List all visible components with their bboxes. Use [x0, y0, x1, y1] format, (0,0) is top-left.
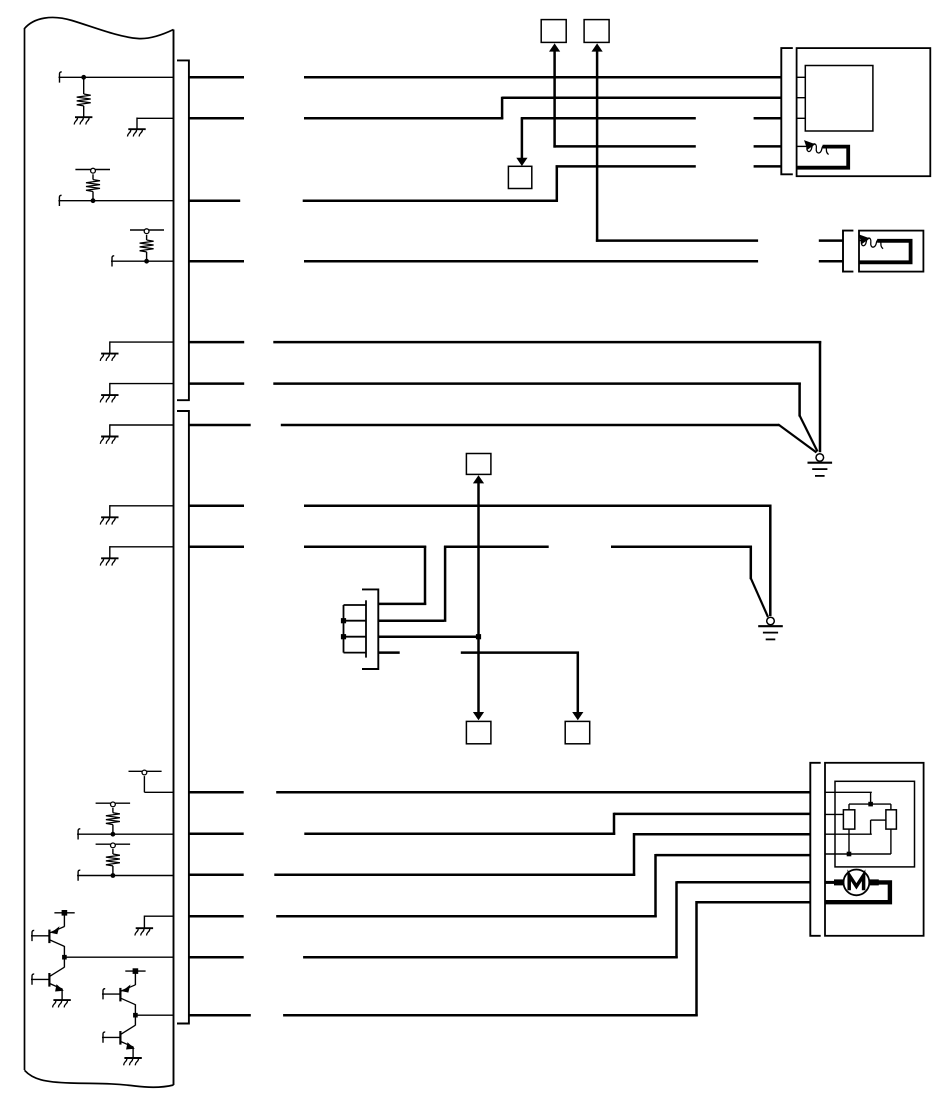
wire row 118 seg1: [189, 117, 244, 120]
off-page connector E5: [565, 721, 590, 743]
sensor wire pin 792: [825, 791, 872, 793]
wire row 201 riser: [556, 165, 559, 201]
wire row 957 riser: [675, 881, 678, 958]
transistor Q3: [120, 985, 135, 1005]
wire row 261 seg2: [304, 260, 758, 263]
wire drop to connector E1: [521, 117, 524, 158]
wire row 916 seg3: [656, 854, 811, 857]
wire row 506 seg2: [304, 505, 772, 508]
wire ECU pin 383: [110, 383, 174, 385]
pin curl row 834: [78, 829, 80, 840]
sensor wire riser: [870, 820, 872, 834]
wire row 383 seg2: [273, 382, 801, 385]
ground row 342: [100, 354, 118, 361]
wire valve pin B: [378, 619, 444, 622]
wire row 506 drop to ground: [769, 505, 772, 616]
ground Q2 emitter: [53, 1000, 71, 1007]
wire row 875 seg1: [189, 874, 244, 877]
ECU box torn wavy bottom edge: [25, 1070, 174, 1087]
wire row 1015 riser: [695, 901, 698, 1016]
wire junction to Q2 collector: [63, 957, 65, 967]
resistor R4: [106, 813, 120, 825]
wire row 957 seg2: [303, 956, 678, 959]
stub pin 98 big component: [797, 97, 806, 99]
arrowhead into E3: [592, 43, 603, 51]
off-page connector E2: [541, 20, 566, 43]
wire row 261 seg1: [189, 260, 244, 263]
wire row 240: [596, 239, 758, 242]
collector rail Q1: [54, 912, 74, 914]
motor M1: [844, 870, 870, 896]
sensor top bar: [849, 803, 891, 805]
wire Q4 base: [102, 1036, 120, 1038]
wire row 547 seg1: [189, 546, 244, 549]
stub pin small component: [859, 240, 862, 242]
wire R6 bottom: [848, 829, 850, 854]
wire valve pin C: [378, 635, 479, 638]
heater element big component: [804, 140, 829, 154]
position sensor inner box: [835, 781, 915, 867]
motor left terminal: [825, 881, 836, 884]
pin curl row 875: [78, 870, 80, 881]
big component box: [797, 48, 931, 176]
sensor wire to R7 side: [871, 819, 886, 821]
wire row 118 riser: [501, 97, 504, 120]
sensor wire pin 814: [825, 813, 843, 815]
pin curl Q4 base: [103, 1032, 105, 1043]
wire row 916 seg1: [189, 915, 244, 918]
supply bar R2: [75, 169, 110, 171]
terminal square Q1 rail: [62, 910, 68, 916]
connector bracket small component: [843, 231, 853, 272]
wire row 916 seg2: [276, 915, 657, 918]
wire Q3 base: [102, 993, 120, 995]
sensor wire pin 854: [825, 853, 891, 855]
resistor R3: [140, 240, 154, 252]
off-page connector E4: [466, 721, 491, 743]
junction row 875: [111, 873, 116, 878]
wire row 166: [556, 165, 696, 168]
wire ECU pin 957: [64, 956, 173, 958]
wire row 547 seg2: [304, 546, 426, 549]
wire ECU pin 261: [111, 260, 174, 262]
junction row 201: [91, 198, 96, 203]
ground row 506: [100, 517, 118, 524]
wire E2 drop to row 146: [553, 50, 556, 147]
wire row 1015 seg2: [283, 1014, 698, 1017]
wire row 118 seg2: [304, 117, 503, 120]
wire ECU pin 342: [110, 341, 174, 343]
wire row 201 seg1: [189, 199, 240, 202]
junction valve pin C: [476, 634, 481, 639]
ground drop row 547: [109, 546, 111, 558]
wire row 834 seg3: [614, 813, 810, 816]
motor right terminal: [869, 879, 879, 885]
sensor wire pin 834: [825, 833, 872, 835]
transistor Q2: [49, 967, 64, 991]
bolt ground G1: [808, 454, 833, 476]
pin curl row 201: [59, 195, 61, 206]
ground drop row 342: [109, 341, 111, 353]
valve body right edge: [365, 600, 367, 657]
transistor Q4: [120, 1025, 135, 1049]
wire row 875 riser: [633, 833, 636, 876]
supply bar R5: [96, 843, 131, 845]
junction row 261: [144, 259, 149, 264]
wire R1 to ground: [83, 106, 85, 117]
off-page connector E1: [508, 166, 531, 188]
pin curl Q1 base: [32, 930, 34, 941]
wire row 383 seg1: [189, 382, 244, 385]
wire bar to R3: [146, 235, 148, 240]
arrowhead into E5: [572, 712, 583, 720]
wire row 1015 seg3: [697, 901, 811, 904]
off-page connector E6: [466, 454, 491, 475]
collector rail Q3: [125, 970, 145, 972]
wire valve pin B riser: [444, 546, 447, 622]
wire junction C up to E6: [477, 482, 480, 636]
motor loop wire: [825, 882, 890, 902]
ECU box left edge: [24, 28, 26, 1070]
wire bar to R4: [112, 808, 114, 813]
wire row 957 seg1: [189, 956, 244, 959]
wire R2 to pin row: [92, 192, 94, 201]
ground drop row 118: [136, 118, 138, 130]
wire ECU pin 425: [110, 424, 174, 426]
wire Q1 base: [31, 935, 49, 937]
resistor R5: [106, 854, 120, 866]
wire row 240 seg2: [819, 239, 843, 242]
pin curl Q2 base: [32, 974, 34, 985]
ground row 547: [100, 558, 118, 565]
pin curl Q3 base: [103, 989, 105, 1000]
throttle body box: [825, 763, 924, 936]
wire row 383 drop: [798, 383, 801, 417]
ground drop row 425: [109, 424, 111, 436]
wire E3 drop to row 240: [596, 50, 599, 241]
wire row 875 seg3: [634, 833, 810, 836]
wire ECU pin 834: [77, 833, 173, 835]
wire ECU pin 1015: [135, 1014, 173, 1016]
ground row 118: [128, 129, 146, 136]
wire row 166 seg2: [754, 165, 782, 168]
wire row 834 seg2: [304, 833, 615, 836]
ECU connector strip 2: [177, 411, 189, 1024]
connector bracket big component: [781, 48, 793, 174]
wire Q2 emitter to ground: [61, 989, 63, 1001]
ground row 383: [100, 395, 118, 402]
wire row 342 seg2: [273, 341, 821, 344]
wire ECU pin 792: [144, 791, 173, 793]
wire row 547 seg3: [444, 546, 549, 549]
bolt ground G2: [758, 617, 783, 639]
wire rail to Q3 collector: [134, 973, 136, 985]
resistor R6: [843, 810, 854, 829]
wire row 506 seg1: [189, 505, 244, 508]
wire R7 bottom: [890, 829, 892, 854]
junction row 957: [62, 955, 67, 960]
wire row 77 seg2: [304, 76, 781, 79]
wire row 118 seg3: [521, 117, 696, 120]
wire junction to Q4 collector: [134, 1015, 136, 1025]
stub pin 118 big component: [797, 117, 806, 119]
valve body box: [344, 605, 367, 653]
valve terminal dot 1: [341, 618, 346, 623]
wire row 201 seg2: [303, 199, 558, 202]
wire row 425 seg2: [281, 424, 779, 427]
wire ECU pin 547: [110, 546, 174, 548]
stub pin 146 big component: [797, 145, 807, 147]
wire row 146 seg2: [754, 145, 782, 148]
wire ECU pin 506: [110, 505, 174, 507]
wire row 383 diagonal to ground: [800, 416, 818, 452]
arrowhead into E1: [516, 158, 527, 166]
wire row 875 seg2: [274, 874, 635, 877]
wire row 77 seg1: [189, 76, 244, 79]
wire valve pin D stub: [378, 651, 399, 654]
wire row 957 seg3: [677, 881, 811, 884]
wire row 547 drop: [750, 546, 753, 579]
inner box big component: [805, 66, 873, 132]
pin curl row 261: [112, 256, 114, 267]
ground row 916: [135, 928, 153, 935]
wire R3 to pin row: [146, 252, 148, 261]
wire row 146: [553, 145, 695, 148]
junction sensor bottom: [847, 852, 852, 857]
wire to R7 top: [890, 804, 892, 810]
wire row 98: [502, 96, 781, 99]
wire row 792 seg1: [189, 791, 244, 794]
wire ECU pin 875: [77, 875, 173, 877]
ground row 425: [100, 437, 118, 444]
valve connector bracket: [362, 589, 378, 669]
ground Q4 emitter: [124, 1058, 142, 1065]
wire Q3 emitter to junction: [134, 1004, 136, 1015]
arrowhead into E4: [473, 712, 484, 720]
wire ECU pin 916: [144, 915, 173, 917]
wire R4 to pin row: [112, 825, 114, 835]
transistor Q1: [49, 926, 64, 946]
wire row 547 seg4: [611, 546, 752, 549]
wire Q1 emitter to junction: [63, 946, 65, 957]
wire row 547 diagonal to ground: [751, 578, 768, 617]
resistor R7: [886, 810, 897, 829]
wire bar to R5: [112, 849, 114, 854]
wire row 342 seg1: [189, 341, 244, 344]
wire valve pin D seg2: [461, 651, 579, 654]
small component box: [859, 231, 923, 272]
wire Q4 emitter to ground: [132, 1047, 134, 1058]
terminal square Q3 rail: [133, 968, 139, 974]
wire supply to pin 792: [143, 776, 145, 792]
wire to R6 top: [848, 804, 850, 810]
ground drop row 383: [109, 383, 111, 395]
wire row 834 riser: [613, 813, 616, 835]
supply bar R3: [130, 229, 164, 231]
ground under R1: [74, 117, 92, 124]
pin curl row 77: [60, 72, 62, 83]
heater element small component: [859, 234, 884, 248]
wire junction C down to E4: [477, 637, 480, 713]
ground drop row 916: [143, 916, 145, 929]
wire valve pin A: [378, 603, 426, 606]
connector bracket throttle body: [810, 763, 820, 936]
junction sensor top bar: [868, 802, 873, 807]
ECU box right edge: [173, 30, 175, 1086]
arrowhead into E6: [473, 475, 484, 483]
supply bar R4: [96, 802, 131, 804]
wire row 834 seg1: [189, 833, 244, 836]
heater loop big component: [797, 147, 849, 168]
wire bar to R2: [92, 174, 94, 179]
ground drop row 506: [109, 505, 111, 517]
supply bar pin 792: [129, 770, 162, 772]
wire Q2 base: [31, 978, 49, 980]
wire row 1015 seg1: [189, 1014, 251, 1017]
wire ECU pin 77: [59, 76, 174, 78]
wire row 425 seg1: [189, 424, 251, 427]
wire row 916 riser: [654, 854, 657, 917]
wire row 261 seg3: [819, 260, 843, 263]
stub pin 77 big component: [797, 76, 806, 78]
wire row 547 drop to valve: [424, 546, 427, 605]
arrowhead into E2: [549, 43, 560, 51]
junction row 77: [81, 75, 86, 80]
resistor R1: [77, 94, 91, 106]
wire to resistor R1: [83, 77, 85, 94]
junction row 1015: [133, 1013, 138, 1018]
junction row 834: [111, 832, 116, 837]
ECU box torn wavy top edge: [25, 17, 174, 38]
valve terminal dot 2: [341, 634, 346, 639]
wire row 425 diagonal to ground: [778, 424, 816, 452]
wire row 342 drop to ground: [819, 341, 822, 452]
wire drop to connector E5: [577, 652, 580, 713]
off-page connector E3: [584, 20, 609, 43]
wire ECU pin 118: [137, 117, 174, 119]
wire row 118 seg4: [754, 117, 782, 120]
heater loop small component: [859, 241, 911, 262]
sensor wire drop: [870, 792, 872, 804]
wire ECU pin 201: [58, 200, 173, 202]
ECU connector strip 1: [177, 60, 189, 400]
wire row 792 seg2: [276, 791, 810, 794]
resistor R2: [86, 180, 100, 192]
wire rail to Q1 collector: [63, 915, 65, 927]
wire R5 to pin row: [112, 866, 114, 876]
